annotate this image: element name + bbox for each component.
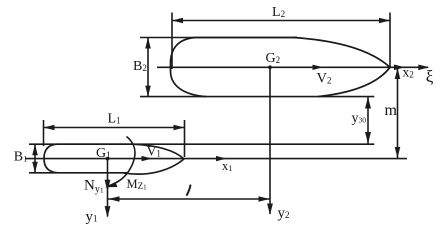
svg-text:MZ1: MZ1 (127, 177, 148, 192)
svg-text:y1: y1 (86, 209, 98, 225)
svg-text:m: m (385, 102, 398, 119)
svg-text:x1: x1 (222, 159, 233, 173)
svg-text:ξ: ξ (426, 67, 434, 86)
svg-text:G1: G1 (96, 146, 111, 161)
svg-text:V2: V2 (317, 71, 332, 87)
svg-text:L2: L2 (272, 5, 285, 20)
svg-text:y2: y2 (278, 206, 290, 222)
svg-text:L1: L1 (108, 112, 121, 127)
svg-text:V1: V1 (147, 144, 161, 159)
svg-text:Ny1: Ny1 (84, 178, 104, 196)
svg-text:y30: y30 (352, 111, 367, 126)
svg-text:B1: B1 (14, 150, 28, 165)
svg-text:B2: B2 (133, 59, 147, 74)
svg-text:G2: G2 (266, 51, 281, 66)
